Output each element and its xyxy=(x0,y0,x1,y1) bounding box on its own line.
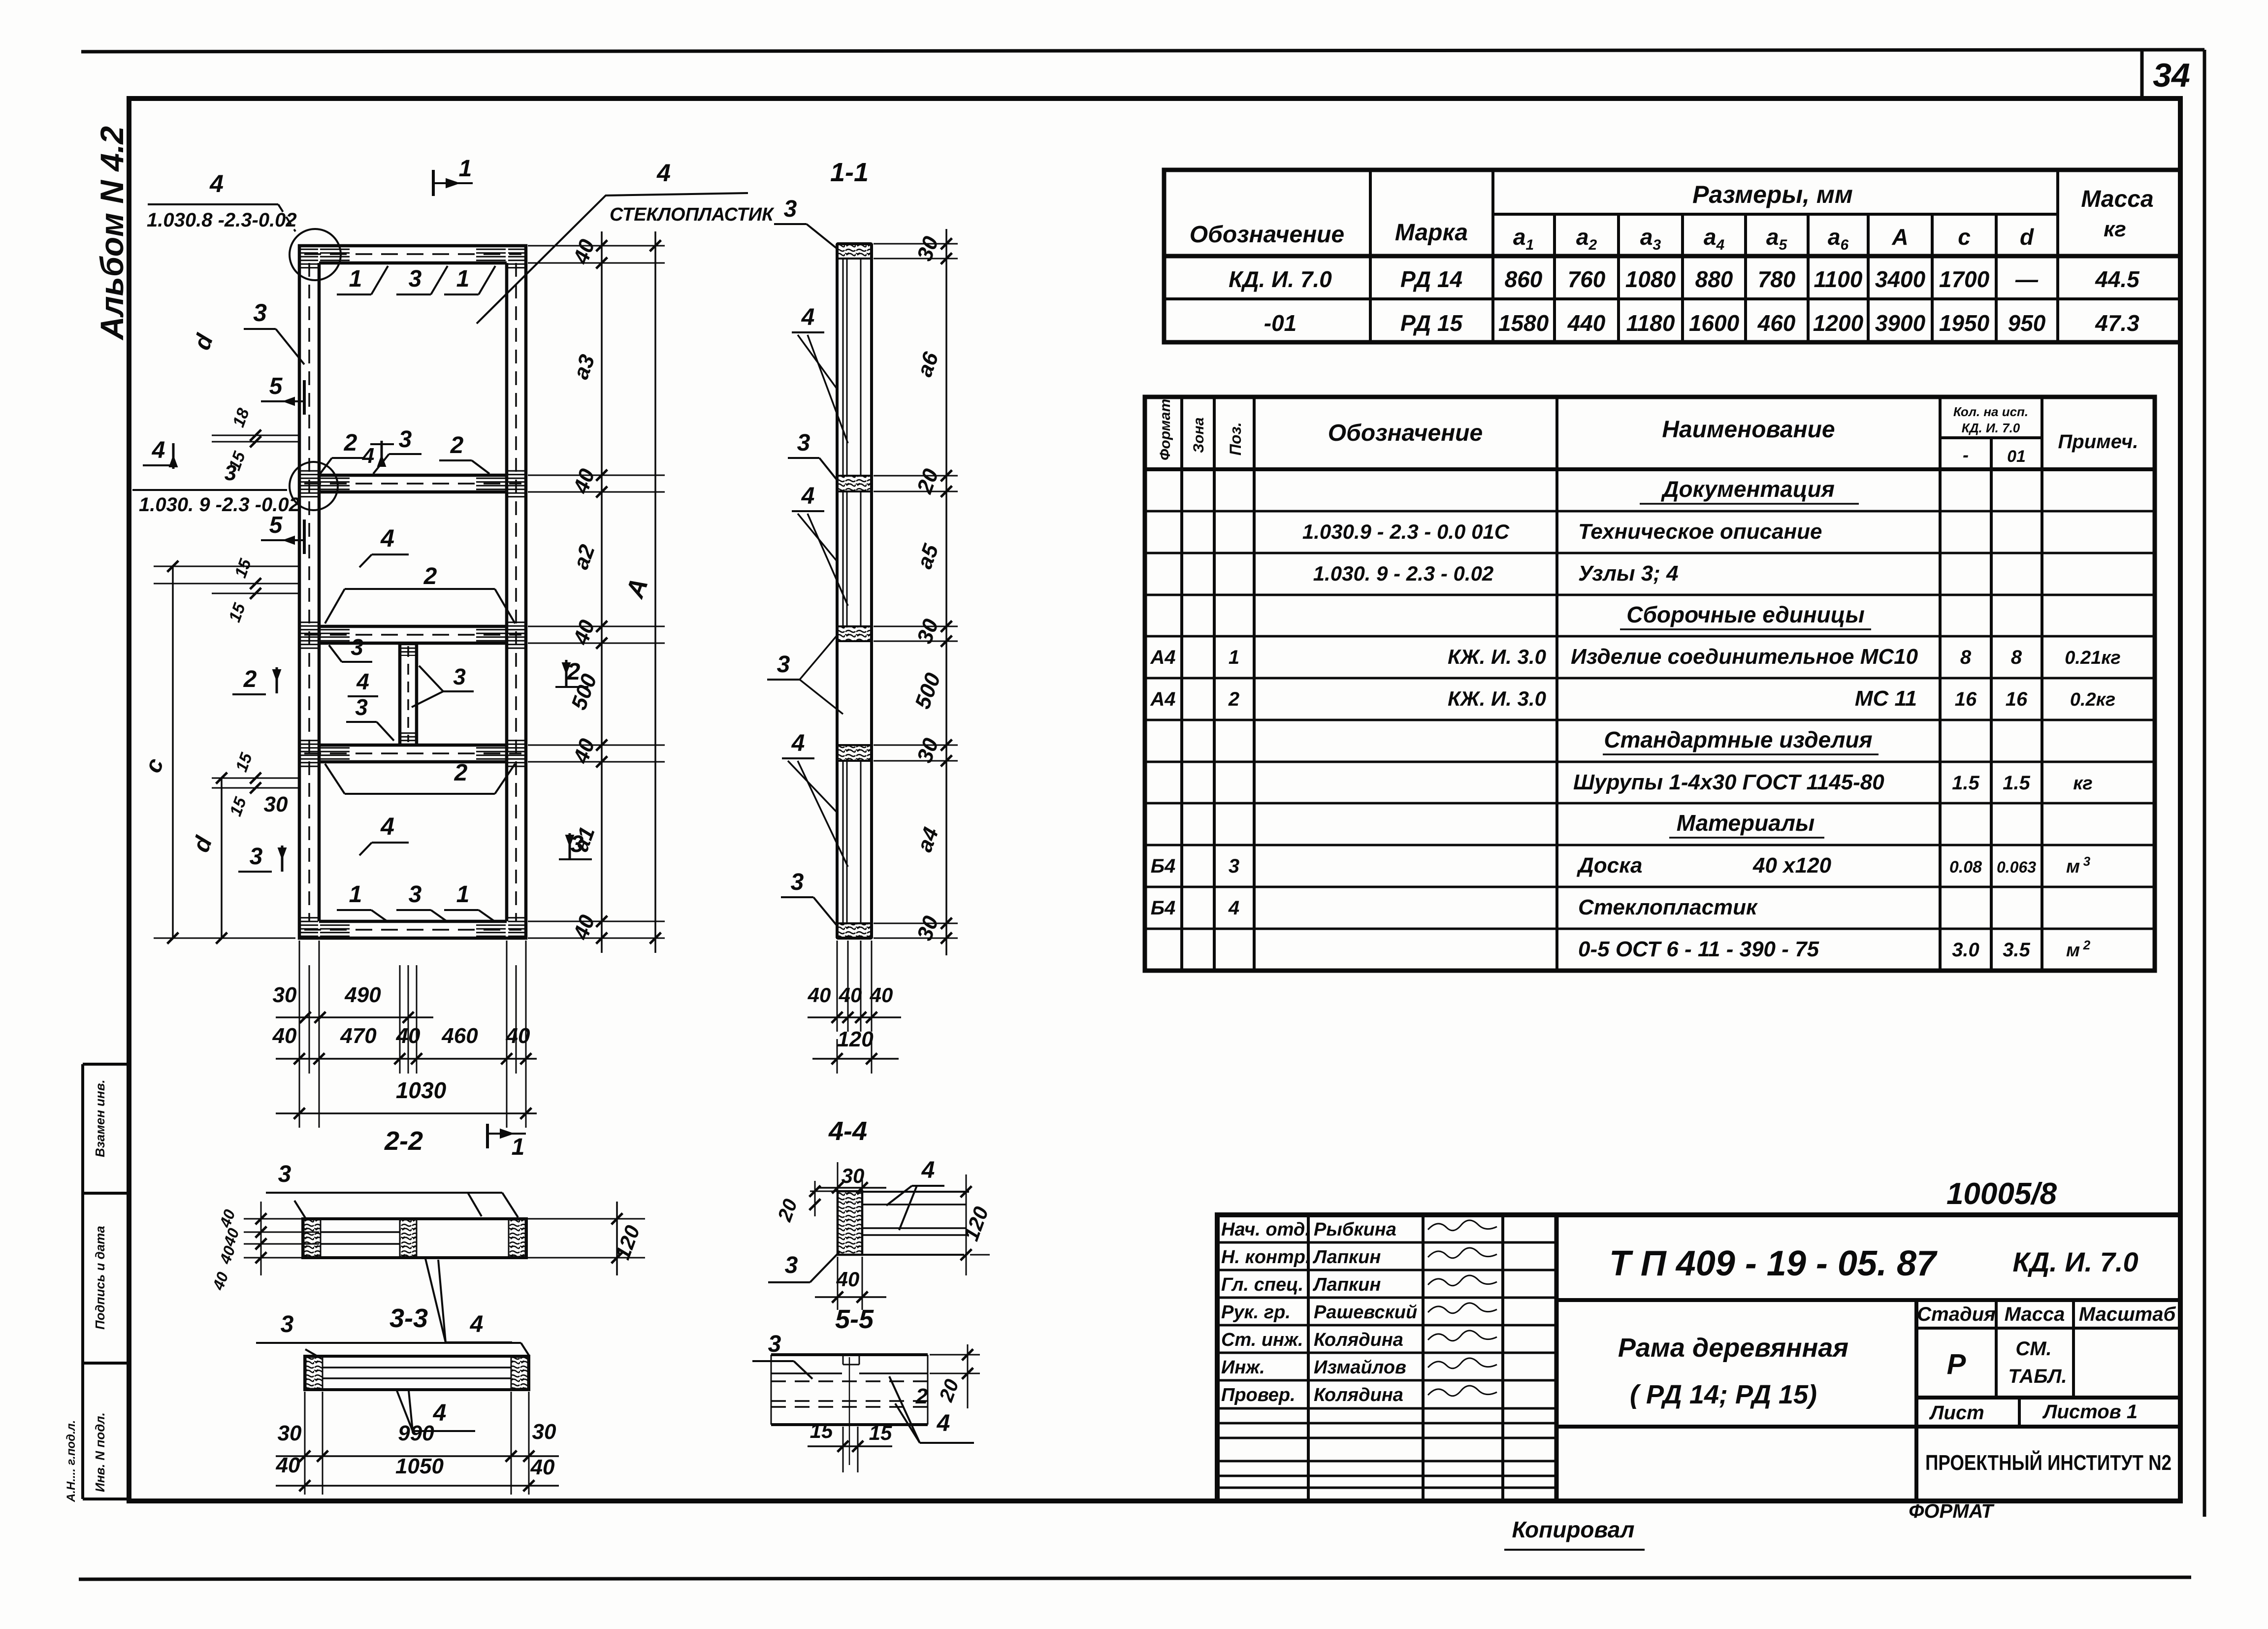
svg-text:3: 3 xyxy=(1229,855,1239,877)
svg-text:4: 4 xyxy=(921,1157,935,1183)
svg-text:A: A xyxy=(1891,224,1908,250)
svg-text:3: 3 xyxy=(225,461,236,485)
svg-text:Обозначение: Обозначение xyxy=(1190,222,1344,248)
left margin revision boxes xyxy=(81,1064,84,1499)
svg-text:Масса: Масса xyxy=(2005,1303,2065,1325)
joint hatches on stiles xyxy=(300,246,318,269)
svg-text:0.08: 0.08 xyxy=(1949,858,1982,877)
document number cell xyxy=(1556,1298,2180,1302)
svg-text:4: 4 xyxy=(362,444,374,468)
svg-text:А.Н.... г.под.л.: А.Н.... г.под.л. xyxy=(65,1420,78,1502)
svg-text:4: 4 xyxy=(356,669,369,694)
svg-text:А4: А4 xyxy=(1150,647,1175,668)
svg-text:Лапкин: Лапкин xyxy=(1312,1247,1381,1268)
svg-text:Б4: Б4 xyxy=(1151,855,1176,877)
svg-text:4: 4 xyxy=(801,483,815,509)
svg-text:d: d xyxy=(2020,224,2034,250)
svg-text:34: 34 xyxy=(2153,57,2190,94)
svg-text:1100: 1100 xyxy=(1814,266,1863,292)
signature squiggle xyxy=(1428,1275,1497,1286)
svg-text:Доска: Доска xyxy=(1576,853,1642,878)
svg-text:КЖ. И. 3.0: КЖ. И. 3.0 xyxy=(1448,645,1546,668)
svg-text:1: 1 xyxy=(459,156,472,182)
svg-text:1.5: 1.5 xyxy=(1952,772,1979,794)
signature squiggle xyxy=(1428,1220,1497,1231)
svg-text:3400: 3400 xyxy=(1875,266,1926,292)
svg-text:Т П 409 - 19 - 05. 87: Т П 409 - 19 - 05. 87 xyxy=(1609,1244,1938,1283)
svg-text:760: 760 xyxy=(1568,266,1606,292)
svg-text:2-2: 2-2 xyxy=(384,1126,423,1156)
svg-text:1: 1 xyxy=(512,1134,525,1160)
svg-text:5-5: 5-5 xyxy=(835,1304,874,1334)
svg-text:1: 1 xyxy=(349,266,362,292)
svg-text:м: м xyxy=(2066,856,2080,877)
svg-text:4: 4 xyxy=(656,159,671,187)
svg-text:30: 30 xyxy=(842,1164,865,1187)
middle stud xyxy=(398,643,402,745)
svg-text:Нач. отд.: Нач. отд. xyxy=(1221,1219,1310,1240)
left 15-15 dims upper xyxy=(154,583,299,585)
svg-text:3: 3 xyxy=(797,430,810,456)
svg-text:1700: 1700 xyxy=(1939,266,1990,292)
svg-text:47.3: 47.3 xyxy=(2095,310,2139,336)
svg-text:c: c xyxy=(1958,224,1971,250)
bottom dim extension lines xyxy=(299,941,300,1128)
right dim chain 1 xyxy=(601,231,603,953)
svg-text:8: 8 xyxy=(1960,647,1972,668)
svg-text:Копировал: Копировал xyxy=(1512,1517,1635,1542)
2-2 bar outline xyxy=(303,1219,526,1258)
svg-text:3: 3 xyxy=(278,1161,292,1187)
svg-text:30: 30 xyxy=(278,1421,302,1445)
svg-text:2: 2 xyxy=(1228,688,1239,710)
5-5 dims 15 15 xyxy=(842,1427,844,1472)
svg-text:3: 3 xyxy=(253,299,267,326)
svg-text:Б4: Б4 xyxy=(1151,897,1176,919)
svg-text:РД 14: РД 14 xyxy=(1400,266,1462,292)
svg-text:МС 11: МС 11 xyxy=(1855,686,1917,711)
section mark 1 top xyxy=(432,170,435,196)
svg-text:Стеклопластик: Стеклопластик xyxy=(1578,895,1758,919)
svg-text:Обозначение: Обозначение xyxy=(1328,420,1483,446)
stile inner edges xyxy=(318,263,321,921)
svg-text:40: 40 xyxy=(808,983,831,1007)
signature squiggle xyxy=(1428,1358,1497,1368)
svg-text:1: 1 xyxy=(1229,647,1239,668)
svg-text:-01: -01 xyxy=(1264,310,1296,336)
svg-text:Рама деревянная: Рама деревянная xyxy=(1618,1333,1848,1363)
svg-text:4: 4 xyxy=(152,437,165,463)
frame outer outline xyxy=(299,246,526,938)
svg-text:3: 3 xyxy=(250,844,263,870)
svg-text:ТАБЛ.: ТАБЛ. xyxy=(2008,1366,2067,1387)
svg-text:40: 40 xyxy=(839,983,862,1007)
svg-text:3: 3 xyxy=(281,1311,294,1337)
svg-text:Рук. гр.: Рук. гр. xyxy=(1221,1302,1291,1323)
svg-text:Ст. инж.: Ст. инж. xyxy=(1221,1330,1303,1350)
sheet outer right edge xyxy=(2203,50,2206,1517)
svg-text:15: 15 xyxy=(869,1421,892,1444)
3-3 cut blocks xyxy=(306,1357,323,1389)
personnel columns xyxy=(1307,1215,1310,1501)
2-2 dim 120 xyxy=(528,1218,645,1220)
4-4 strips xyxy=(862,1191,969,1193)
svg-text:1030: 1030 xyxy=(396,1077,447,1103)
svg-text:10005/8: 10005/8 xyxy=(1946,1177,2057,1211)
svg-text:40: 40 xyxy=(272,1024,297,1048)
svg-text:3.5: 3.5 xyxy=(2003,939,2030,961)
svg-text:3: 3 xyxy=(409,881,422,908)
svg-text:Взамен инв.: Взамен инв. xyxy=(93,1079,107,1157)
4-4 block xyxy=(838,1191,862,1255)
node 2 label line xyxy=(132,489,287,491)
sheet outer bottom edge xyxy=(79,1577,2191,1579)
svg-text:КД. И. 7.0: КД. И. 7.0 xyxy=(2012,1246,2138,1277)
svg-text:Лапкин: Лапкин xyxy=(1312,1274,1381,1295)
svg-text:4-4: 4-4 xyxy=(828,1116,867,1146)
svg-text:3.0: 3.0 xyxy=(1952,939,1979,961)
stadia grid xyxy=(1914,1300,1918,1501)
svg-text:40: 40 xyxy=(276,1453,300,1477)
svg-text:780: 780 xyxy=(1758,266,1796,292)
bottom dim row 3 xyxy=(276,1112,537,1114)
svg-text:Н. контр.: Н. контр. xyxy=(1221,1247,1311,1268)
svg-text:РД 15: РД 15 xyxy=(1400,310,1463,336)
svg-text:40: 40 xyxy=(396,1024,421,1048)
svg-text:40: 40 xyxy=(506,1024,530,1048)
svg-text:460: 460 xyxy=(441,1024,478,1048)
5-5 bar xyxy=(771,1353,928,1356)
list row xyxy=(2018,1398,2021,1427)
svg-text:1.5: 1.5 xyxy=(2003,772,2030,794)
section 1-1 dim chain xyxy=(945,229,947,955)
svg-text:3: 3 xyxy=(355,694,368,720)
stud end hatches xyxy=(401,644,416,656)
svg-text:Узлы 3; 4: Узлы 3; 4 xyxy=(1578,561,1679,586)
trapezoid leader above rail 3 xyxy=(345,588,495,590)
svg-text:Инв. N подл.: Инв. N подл. xyxy=(93,1412,107,1492)
left dim c line xyxy=(172,566,174,938)
svg-text:1200: 1200 xyxy=(1813,310,1864,336)
section mark 1 near 2-2 xyxy=(486,1124,489,1148)
hidden sheet edges dashed xyxy=(308,263,310,921)
svg-text:40 х120: 40 х120 xyxy=(1752,853,1832,878)
svg-text:Лист: Лист xyxy=(1929,1402,1984,1424)
svg-text:40: 40 xyxy=(530,1455,555,1479)
svg-text:1600: 1600 xyxy=(1689,310,1740,336)
svg-text:40: 40 xyxy=(870,983,893,1007)
svg-text:0.21кг: 0.21кг xyxy=(2065,648,2121,668)
svg-text:Инж.: Инж. xyxy=(1221,1357,1265,1378)
signature squiggle xyxy=(1428,1331,1497,1341)
svg-text:Марка: Марка xyxy=(1395,220,1468,246)
5-5 top notch xyxy=(842,1355,844,1365)
svg-text:3900: 3900 xyxy=(1875,310,1926,336)
2-2 cut blocks xyxy=(304,1220,321,1257)
svg-text:Провер.: Провер. xyxy=(1221,1385,1296,1405)
svg-text:Колядина: Колядина xyxy=(1314,1385,1403,1405)
svg-text:4: 4 xyxy=(380,813,394,840)
svg-text:Рашевский: Рашевский xyxy=(1314,1302,1417,1323)
svg-text:16: 16 xyxy=(1955,688,1977,710)
svg-text:Подпись и дата: Подпись и дата xyxy=(93,1226,107,1330)
svg-text:5: 5 xyxy=(269,373,283,399)
sheet outer top edge xyxy=(81,50,2204,52)
svg-text:0.063: 0.063 xyxy=(1997,858,2036,876)
svg-text:30: 30 xyxy=(532,1420,556,1444)
svg-text:Формат: Формат xyxy=(1157,399,1173,460)
svg-text:Поз.: Поз. xyxy=(1227,422,1244,456)
svg-text:1: 1 xyxy=(456,266,470,292)
svg-text:3: 3 xyxy=(777,652,790,678)
svg-text:16: 16 xyxy=(2006,688,2028,710)
svg-text:3: 3 xyxy=(785,1252,798,1278)
3-3 bar outline xyxy=(305,1356,529,1390)
svg-text:Материалы: Материалы xyxy=(1677,810,1815,836)
svg-text:—: — xyxy=(2015,266,2039,292)
column cut blocks xyxy=(837,244,872,259)
svg-text:Гл. спец.: Гл. спец. xyxy=(1221,1274,1303,1295)
svg-text:4: 4 xyxy=(791,730,805,756)
column inner ply lines xyxy=(842,259,844,476)
svg-text:120: 120 xyxy=(837,1027,874,1051)
svg-text:Документация: Документация xyxy=(1660,476,1835,502)
rail edges xyxy=(319,474,507,477)
svg-text:990: 990 xyxy=(398,1421,434,1445)
svg-text:44.5: 44.5 xyxy=(2095,266,2140,292)
svg-text:кг: кг xyxy=(2073,773,2093,794)
2-2 left 40 dims xyxy=(244,1218,302,1220)
svg-text:Шурупы 1-4х30 ГОСТ 1145-80: Шурупы 1-4х30 ГОСТ 1145-80 xyxy=(1573,770,1884,794)
personnel rows xyxy=(1217,1241,1556,1244)
svg-text:4: 4 xyxy=(1228,897,1239,919)
svg-text:( РД 14; РД 15): ( РД 14; РД 15) xyxy=(1630,1380,1817,1409)
svg-text:880: 880 xyxy=(1695,266,1733,292)
svg-text:3: 3 xyxy=(399,426,412,453)
svg-text:4: 4 xyxy=(801,304,815,330)
trapezoid leader below rail 4 xyxy=(345,793,495,795)
left dim d line xyxy=(221,778,223,938)
fiberglass leader xyxy=(477,195,606,324)
svg-text:950: 950 xyxy=(2008,310,2046,336)
section 1-1 bottom dims xyxy=(837,941,838,1032)
page number box xyxy=(2140,51,2144,98)
signature squiggle xyxy=(1428,1303,1497,1313)
svg-text:2: 2 xyxy=(915,1384,928,1408)
5-5 center axis xyxy=(849,1357,850,1465)
right dim chain extension lines xyxy=(528,245,665,247)
signature squiggle xyxy=(1428,1386,1497,1396)
title block outline xyxy=(1217,1215,2180,1501)
svg-text:2: 2 xyxy=(344,430,357,456)
svg-text:м: м xyxy=(2066,940,2080,961)
svg-text:СМ.: СМ. xyxy=(2015,1338,2051,1360)
sizes table xyxy=(1164,170,2180,342)
svg-text:3: 3 xyxy=(409,266,422,292)
svg-text:Изделие соединительное МС10: Изделие соединительное МС10 xyxy=(1571,645,1918,669)
svg-text:1: 1 xyxy=(349,881,362,908)
bottom dim row 1 xyxy=(276,1016,433,1018)
right dim chain A xyxy=(654,231,656,953)
section 1-1 right extension lines xyxy=(874,243,958,245)
svg-text:2: 2 xyxy=(2083,938,2091,952)
column outline xyxy=(836,244,839,938)
2-2 ply lines xyxy=(321,1231,400,1233)
svg-text:01: 01 xyxy=(2007,447,2026,466)
left 15-15-30 dims lower xyxy=(212,778,299,779)
svg-text:3-3: 3-3 xyxy=(389,1303,428,1333)
svg-text:2: 2 xyxy=(454,760,468,786)
svg-text:4: 4 xyxy=(209,170,224,197)
svg-text:470: 470 xyxy=(340,1024,377,1048)
svg-text:ФОРМАТ: ФОРМАТ xyxy=(1909,1500,1995,1522)
specification table xyxy=(1145,397,2155,971)
svg-text:4: 4 xyxy=(470,1311,484,1337)
svg-text:КД. И. 7.0: КД. И. 7.0 xyxy=(1229,266,1332,292)
svg-text:Техническое описание: Техническое описание xyxy=(1578,520,1822,544)
bottom dim row 2 xyxy=(276,1058,537,1060)
svg-text:СТЕКЛОПЛАСТИК: СТЕКЛОПЛАСТИК xyxy=(610,204,775,225)
svg-text:Размеры, мм: Размеры, мм xyxy=(1692,181,1853,208)
svg-text:3: 3 xyxy=(351,634,363,660)
svg-text:2: 2 xyxy=(423,563,437,589)
left 18-15 dims xyxy=(212,435,299,436)
svg-text:Зона: Зона xyxy=(1191,418,1207,453)
svg-text:А4: А4 xyxy=(1150,688,1175,710)
svg-text:Наименование: Наименование xyxy=(1662,417,1835,443)
svg-text:Измайлов: Измайлов xyxy=(1314,1357,1406,1378)
svg-text:Стадия: Стадия xyxy=(1917,1303,1995,1325)
svg-text:Стандартные изделия: Стандартные изделия xyxy=(1604,727,1872,752)
svg-text:4: 4 xyxy=(380,524,394,552)
svg-text:Масштаб: Масштаб xyxy=(2079,1303,2176,1325)
svg-text:1.030.8 -2.3-0.02: 1.030.8 -2.3-0.02 xyxy=(147,209,297,231)
3-3 dims xyxy=(304,1392,306,1495)
svg-text:40: 40 xyxy=(836,1268,860,1291)
svg-text:Колядина: Колядина xyxy=(1314,1330,1403,1350)
svg-text:4: 4 xyxy=(433,1400,447,1426)
svg-text:1.030. 9 - 2.3 - 0.02: 1.030. 9 - 2.3 - 0.02 xyxy=(1313,562,1494,585)
svg-text:1: 1 xyxy=(456,881,470,908)
svg-text:8: 8 xyxy=(2011,647,2022,668)
inner drawing frame xyxy=(129,98,2180,1501)
node detail circle 1 xyxy=(290,229,341,280)
svg-text:460: 460 xyxy=(1757,310,1796,336)
svg-text:КД. И. 7.0: КД. И. 7.0 xyxy=(1962,421,2020,435)
svg-text:15: 15 xyxy=(810,1419,833,1442)
svg-text:30: 30 xyxy=(264,792,288,816)
svg-text:4: 4 xyxy=(937,1410,950,1436)
svg-text:3: 3 xyxy=(791,869,804,895)
svg-text:1950: 1950 xyxy=(1939,310,1990,336)
svg-text:Альбом N 4.2: Альбом N 4.2 xyxy=(94,126,130,341)
svg-text:Примеч.: Примеч. xyxy=(2058,431,2138,453)
svg-text:0-5 ОСТ 6 - 11 - 390 - 75: 0-5 ОСТ 6 - 11 - 390 - 75 xyxy=(1578,937,1819,961)
svg-text:1.030.9 - 2.3 - 0.0 01С: 1.030.9 - 2.3 - 0.0 01С xyxy=(1302,520,1510,543)
svg-text:5: 5 xyxy=(269,512,283,538)
signature squiggle xyxy=(1428,1248,1497,1258)
svg-text:ПРОЕКТНЫЙ ИНСТИТУТ N2: ПРОЕКТНЫЙ ИНСТИТУТ N2 xyxy=(1925,1450,2171,1475)
svg-text:1080: 1080 xyxy=(1625,266,1676,292)
svg-text:3: 3 xyxy=(453,664,466,689)
svg-text:30: 30 xyxy=(273,983,297,1007)
svg-text:2: 2 xyxy=(243,666,257,692)
svg-text:0.2кг: 0.2кг xyxy=(2070,689,2115,710)
svg-text:860: 860 xyxy=(1505,266,1543,292)
node detail circle 2 xyxy=(290,462,338,510)
svg-text:1050: 1050 xyxy=(395,1454,444,1478)
svg-text:1180: 1180 xyxy=(1626,310,1675,336)
svg-text:Кол. на исп.: Кол. на исп. xyxy=(1953,404,2028,419)
svg-text:-: - xyxy=(1963,445,1969,465)
svg-text:Листов 1: Листов 1 xyxy=(2042,1401,2138,1423)
svg-text:1.030. 9 -2.3 -0.02: 1.030. 9 -2.3 -0.02 xyxy=(139,494,300,516)
svg-text:КЖ. И. 3.0: КЖ. И. 3.0 xyxy=(1448,687,1546,710)
svg-text:440: 440 xyxy=(1567,310,1606,336)
svg-text:Сборочные единицы: Сборочные единицы xyxy=(1626,602,1865,627)
svg-text:1580: 1580 xyxy=(1498,310,1549,336)
svg-text:3: 3 xyxy=(2083,854,2091,869)
svg-text:Р: Р xyxy=(1947,1348,1966,1380)
svg-text:Масса: Масса xyxy=(2081,186,2153,212)
svg-text:Рыбкина: Рыбкина xyxy=(1314,1219,1396,1240)
svg-text:3: 3 xyxy=(784,196,797,222)
svg-text:2: 2 xyxy=(450,432,464,458)
svg-text:кг: кг xyxy=(2104,217,2126,241)
joint hatches on rails xyxy=(320,247,350,261)
svg-text:490: 490 xyxy=(344,983,381,1007)
svg-text:1-1: 1-1 xyxy=(830,158,869,187)
3-3 ply lines xyxy=(323,1367,511,1368)
